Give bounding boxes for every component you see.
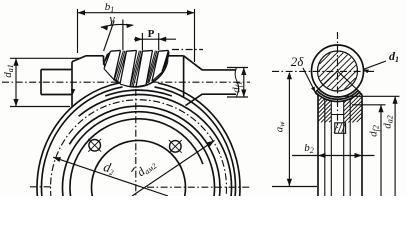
- svg-text:P: P: [148, 28, 155, 40]
- svg-text:2δ: 2δ: [291, 54, 305, 69]
- svg-text:γ: γ: [109, 11, 115, 26]
